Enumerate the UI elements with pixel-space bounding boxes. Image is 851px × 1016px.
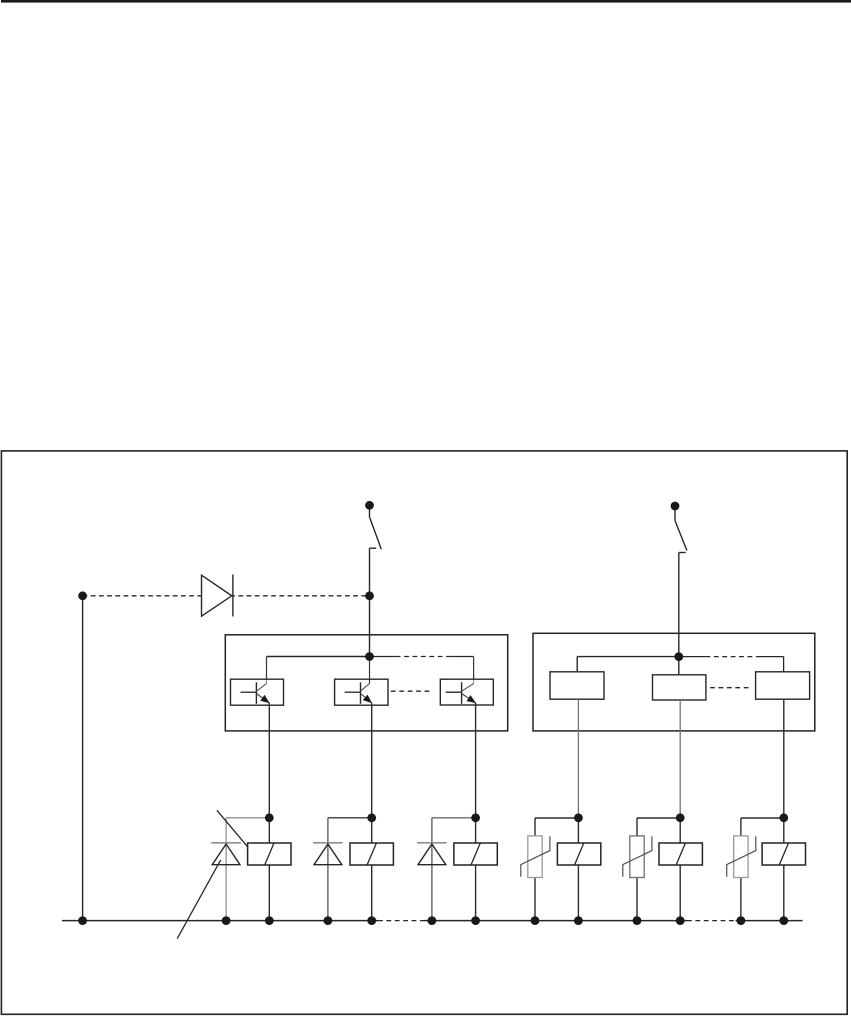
node: rail K2 [367, 916, 376, 925]
node: U1 bus junction [365, 652, 374, 661]
node: U2 bus junction [674, 652, 683, 661]
wire: connector node C3 to diode branch [432, 817, 476, 819]
wire: connector node C1 to diode branch [226, 817, 269, 819]
wire: collector drop to Q1 [266, 657, 268, 684]
output stage CH2 [653, 675, 706, 700]
relay coil K1 [248, 843, 291, 865]
node B: control line left [78, 591, 87, 600]
wire: Q1 emitter to relay K1 and rail [268, 703, 270, 921]
node: S2 input terminal [671, 502, 680, 511]
leader line to diode D2 [177, 860, 221, 939]
node: rail left end [78, 916, 87, 925]
wire: connector node C6 to varistor branch [741, 818, 784, 921]
switch S1 [370, 509, 382, 549]
node A: control line right [365, 591, 374, 600]
wire: CH2 output to relay K5 and rail [679, 700, 681, 921]
diode D1 [202, 575, 233, 617]
wire: entry to channel CH2 [678, 657, 680, 675]
relay coil K3 [454, 843, 497, 865]
wire: dashed control line (node B to node A) [83, 595, 370, 597]
node C5 [676, 813, 685, 822]
varistor RV3 [727, 836, 756, 878]
node: rail K1 [265, 916, 274, 925]
node: rail K6 [779, 916, 788, 925]
wire: diode D2 branch vertical [225, 818, 227, 921]
wire: U1 internal bus right (solid+dashed) [370, 656, 474, 658]
wire: dashed between CH2 and CH3 [710, 687, 751, 689]
node C3 [471, 813, 480, 822]
transistor Q3 [440, 679, 493, 705]
wire: connector node C5 to varistor branch [637, 818, 680, 921]
node: rail RV2 [633, 916, 642, 925]
wire: Q3 emitter to relay K3 and rail [475, 703, 477, 921]
node: rail K3 [471, 916, 480, 925]
varistor RV2 [623, 836, 652, 878]
transistor Q1 [231, 679, 284, 705]
wire: CH1 output to relay K4 and rail [577, 699, 579, 920]
node: rail D3 [324, 916, 333, 925]
driver IC U2 outline [533, 633, 815, 731]
wire: S1 to node A and driver U1 [369, 548, 371, 656]
node: rail RV1 [531, 916, 540, 925]
varistor RV1 [521, 836, 550, 878]
wire: dashed between Q2 and Q3 [391, 690, 432, 692]
node C6 [779, 813, 788, 822]
node C4 [574, 813, 583, 822]
wire: diode D3 branch vertical [327, 818, 329, 921]
transistor Q2 [335, 679, 388, 705]
node: rail K5 [676, 916, 685, 925]
diode D4 (suppressor) [417, 843, 447, 865]
wire: connector node C2 to diode branch [328, 817, 372, 819]
wire: U2 internal bus left [577, 657, 679, 673]
node C2 [367, 813, 376, 822]
node: rail D2 [222, 916, 231, 925]
wire: CH3 output to relay K6 and rail [783, 700, 785, 921]
relay coil K6 [762, 843, 805, 865]
output stage CH1 [550, 672, 604, 699]
node: rail RV3 [737, 916, 746, 925]
driver IC U1 outline [225, 635, 507, 731]
node: rail K4 [574, 916, 583, 925]
diode D3 (suppressor) [313, 843, 343, 865]
wire: diode D4 branch vertical [431, 818, 433, 921]
wire: collector drop to Q2 [369, 657, 371, 684]
wire: S2 down to driver U2 [678, 553, 680, 657]
diode D2 (suppressor) [211, 843, 241, 865]
node: S1 input terminal [365, 501, 374, 510]
relay coil K5 [659, 843, 702, 865]
wire: left rail down from node B [82, 596, 84, 921]
wire: collector drop to Q3 [473, 657, 475, 684]
relay coil K2 [350, 843, 393, 865]
switch S2 [675, 510, 687, 553]
wire: U1 internal bus left [267, 656, 370, 658]
output stage CH3 [756, 672, 810, 699]
wire: U2 internal bus right (solid+dashed) [679, 657, 784, 673]
wire: bottom rail [62, 920, 803, 922]
node: rail D4 [428, 916, 437, 925]
node C1 [265, 813, 274, 822]
leader line to relay coil K1 [217, 810, 249, 848]
wire: Q2 emitter to relay K2 and rail [371, 703, 373, 921]
wire: connector node C4 to varistor branch [535, 818, 578, 921]
relay coil K4 [557, 843, 600, 865]
